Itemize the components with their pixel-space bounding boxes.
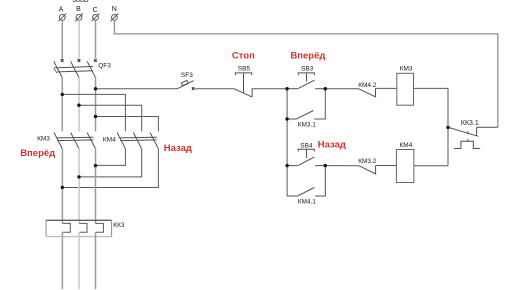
svg-text:КМ3: КМ3 [37, 136, 50, 143]
wire KM4 pole3 output to phase A [62, 149, 158, 188]
wire SF3 to SB5 [195, 88, 234, 90]
svg-text:Вперёд: Вперёд [290, 51, 325, 62]
contact KM4.2 NC interlock [359, 88, 377, 97]
node junction A to KM4 branch [61, 93, 64, 96]
wire phase B terminal to QF3 [78, 20, 80, 58]
wire phase A to motor [61, 232, 63, 289]
thermal relay KK3 box [46, 220, 112, 237]
svg-text:КМ3.1: КМ3.1 [298, 122, 317, 129]
wire KM4 pole1 output to phase C [96, 149, 126, 166]
svg-text:N: N [112, 6, 117, 13]
wire phase B to motor [78, 232, 80, 289]
terminal B [75, 14, 83, 22]
contact KK3.1 thermal NC [449, 127, 498, 148]
svg-text:SB3: SB3 [301, 66, 314, 73]
wire right vertical SB3 to KM3.1 [314, 89, 325, 119]
svg-text:QF3: QF3 [98, 63, 111, 70]
wire KM4 pole2 output to phase B [79, 149, 142, 177]
wire KM4.2 to KM3 coil [376, 87, 397, 89]
wire phase A QF3 to KM3 [61, 78, 63, 132]
wire left vertical SB3 down to KM4.1 [286, 89, 288, 196]
svg-text:380В: 380В [72, 0, 89, 4]
node junction C output [94, 164, 97, 167]
svg-text:SF3: SF3 [181, 72, 193, 79]
wire phase C QF3 to KM3 [95, 78, 97, 132]
wire branch A to KM4 pole1 [62, 94, 125, 131]
node junction SB4 right [324, 164, 327, 167]
node junction C to control line [94, 87, 97, 90]
thermal relay KK3 heater phase C [96, 223, 104, 232]
contactor KM3 main contacts [54, 133, 96, 149]
wire phase C terminal to QF3 [95, 20, 97, 58]
svg-text:КМ4: КМ4 [103, 137, 116, 144]
node junction SB3 right [324, 87, 327, 90]
wire branch B to KM4 pole2 [79, 105, 142, 131]
node junction SB3 left [285, 87, 288, 90]
svg-text:A: A [59, 6, 64, 13]
wire control line C to SF3 [96, 88, 178, 90]
breaker SF3 [177, 80, 194, 90]
wire N to right edge riser [114, 20, 497, 127]
node junction SB4 left [285, 164, 288, 167]
svg-text:КК3: КК3 [113, 222, 125, 229]
thermal relay KK3 heater phase B [79, 223, 87, 232]
node junction B output [77, 175, 80, 178]
svg-text:КМ4.2: КМ4.2 [358, 82, 377, 89]
pushbutton SB3 forward NO [287, 73, 325, 89]
wire SB3 to KM4.2 [325, 88, 358, 90]
node junction B to KM4 branch [77, 104, 80, 107]
coil KM3 [397, 73, 414, 105]
contactor KM4 main contacts [117, 133, 158, 149]
svg-text:SB5: SB5 [238, 66, 251, 73]
svg-text:Назад: Назад [164, 143, 192, 154]
node junction KK3.1 left [446, 126, 449, 129]
svg-text:Вперёд: Вперёд [20, 148, 55, 159]
svg-text:КМ3.2: КМ3.2 [358, 158, 377, 165]
wire phase A KM3 to KK3 [61, 149, 63, 224]
wire phase B KM3 to KK3 [78, 149, 80, 224]
svg-text:Стоп: Стоп [232, 51, 255, 62]
wire phase C to motor [95, 232, 97, 289]
contact KM4.1 NO holding [287, 166, 325, 196]
wire KM4 coil to riser [414, 165, 448, 167]
svg-text:C: C [93, 7, 98, 14]
contact KM3.1 NO holding [287, 111, 313, 120]
node junction KM3.1 left [285, 117, 288, 120]
wire phase A terminal to QF3 [61, 20, 63, 58]
terminal N [111, 14, 119, 22]
node junction C to KM4 branch [94, 115, 97, 118]
svg-text:КМ4.1: КМ4.1 [298, 199, 317, 206]
circuit breaker QF3 [54, 59, 97, 77]
wire SB5 to SB3 [252, 88, 287, 90]
wire branch C to KM4 pole3 [96, 117, 159, 132]
node junction A output [61, 186, 64, 189]
svg-text:КМ4: КМ4 [400, 142, 413, 149]
wire SB4 to KM3.2 [325, 165, 359, 167]
svg-text:SB4: SB4 [300, 142, 313, 149]
thermal relay KK3 heater phase A [62, 223, 70, 232]
svg-text:B: B [76, 6, 81, 13]
contact KM3.2 NC interlock [359, 165, 376, 174]
pushbutton SB5 stop NC [234, 73, 252, 97]
terminal C [92, 14, 100, 22]
terminal A [58, 14, 66, 22]
svg-text:КК3.1: КК3.1 [461, 120, 479, 127]
wire KM3.2 to KM4 coil [376, 165, 397, 167]
coil KM4 [396, 150, 414, 183]
wire phase C KM3 to KK3 [95, 149, 97, 224]
svg-text:КМ3: КМ3 [400, 65, 413, 72]
svg-text:Назад: Назад [318, 139, 346, 150]
wire KM3 coil to riser [414, 88, 449, 165]
pushbutton SB4 reverse NO [287, 149, 325, 165]
wire phase B QF3 to KM3 [78, 78, 80, 132]
